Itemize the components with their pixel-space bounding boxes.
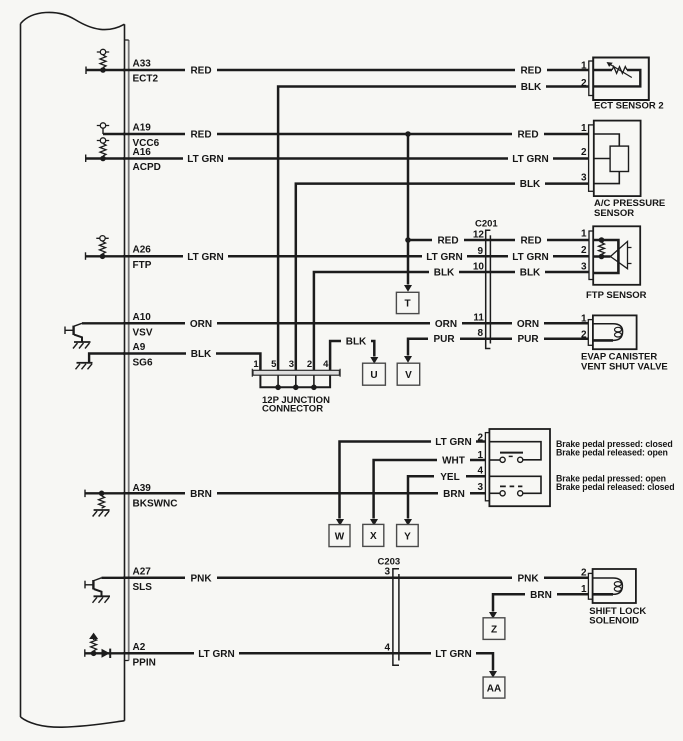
connector C203	[393, 569, 399, 666]
svg-text:4: 4	[384, 643, 390, 654]
label WHT (brake pin 1)	[437, 454, 470, 467]
12P junction connector	[252, 369, 340, 390]
svg-text:A16: A16	[133, 147, 152, 158]
svg-text:ACPD: ACPD	[133, 162, 161, 173]
FTP sensor box	[593, 226, 640, 284]
diode (A2 PPIN)	[102, 649, 111, 658]
label BLK (C201 pin 10)	[429, 266, 459, 279]
wire A19 RED to A/C pressure sensor pin 1	[123, 133, 589, 136]
A/C pressure sensor connector tab	[589, 125, 594, 191]
node T box	[396, 292, 419, 313]
label LT GRN (C203 pin 4)	[431, 647, 476, 660]
pin A10 internal driver transistor Q	[65, 323, 125, 341]
svg-text:BLK: BLK	[191, 349, 212, 360]
svg-text:AA: AA	[487, 683, 501, 694]
svg-text:LT GRN: LT GRN	[187, 252, 223, 263]
svg-text:RED: RED	[520, 236, 541, 247]
pin A2 internal resistor to B+ and diode	[85, 633, 125, 657]
svg-text:V: V	[405, 370, 412, 381]
ground (A9 SG6)	[76, 363, 93, 370]
svg-text:RED: RED	[437, 236, 458, 247]
svg-text:BRN: BRN	[443, 489, 465, 500]
label LT GRN (A16, left)	[183, 152, 228, 165]
label PUR (EVAP pin 2)	[512, 332, 544, 345]
A/C pressure sensor element	[610, 146, 628, 171]
wire BLK ECT sensor 2 pin 2 to junction pin 5	[278, 87, 589, 371]
svg-text:SLS: SLS	[133, 582, 153, 593]
svg-text:3: 3	[289, 359, 294, 370]
svg-text:8: 8	[477, 328, 483, 339]
pin A19 internal terminal	[97, 123, 125, 134]
label LT GRN (brake pin 2)	[431, 435, 476, 448]
wire A9 BLK to junction pin 1	[123, 354, 260, 371]
svg-text:PUR: PUR	[433, 334, 455, 345]
shift lock solenoid pin numbers	[581, 568, 587, 596]
svg-text:10: 10	[473, 262, 485, 273]
label BLK (ECT pin 2)	[516, 80, 546, 93]
svg-text:1: 1	[581, 123, 587, 134]
wire PUR C201 pin 8 to EVAP valve pin 2 and node V	[404, 339, 589, 363]
wire YEL brake switch pin 4 to node Y	[408, 476, 485, 518]
label ORN (C201 pin 11)	[430, 317, 462, 330]
label BRN (shift lock pin 1)	[525, 588, 557, 601]
svg-text:VENT SHUT VALVE: VENT SHUT VALVE	[581, 361, 668, 372]
ECT sensor 2 box	[593, 58, 649, 101]
svg-text:PUR: PUR	[517, 334, 539, 345]
svg-text:A26: A26	[133, 245, 152, 256]
label BRN (brake pin 3)	[438, 487, 470, 500]
svg-text:1: 1	[581, 61, 587, 72]
C201 pin numbers	[473, 230, 485, 340]
pin A26 internal pull-up resistor	[86, 236, 125, 260]
svg-text:2: 2	[307, 359, 312, 370]
ground (A10 driver)	[73, 342, 91, 349]
brake switch state notes	[556, 439, 674, 492]
junction pin numbers 1 5 3 2 4	[253, 359, 329, 370]
svg-text:Z: Z	[491, 624, 497, 635]
svg-text:WHT: WHT	[442, 456, 465, 467]
label LT GRN (C201 pin 9)	[422, 250, 467, 263]
wire A16 LT GRN to A/C pressure sensor pin 2	[123, 157, 589, 160]
svg-text:2: 2	[581, 568, 587, 579]
ECT sensor 2 connector tab	[589, 61, 593, 96]
svg-text:W: W	[335, 531, 345, 542]
svg-text:2: 2	[581, 147, 587, 158]
svg-text:1: 1	[477, 450, 483, 461]
node W box	[329, 525, 350, 547]
A/C pressure sensor box	[594, 121, 641, 197]
wire BLK A/C pressure sensor pin 3 to junction pin 3	[296, 184, 589, 371]
label YEL (brake pin 4)	[434, 470, 466, 483]
svg-text:Brake pedal released: open: Brake pedal released: open	[556, 448, 668, 458]
brake switch pin numbers	[477, 433, 483, 493]
svg-text:BRN: BRN	[190, 489, 212, 500]
ground (A39)	[93, 510, 110, 517]
node X box	[363, 524, 384, 546]
label RED (ECT pin 1)	[515, 64, 547, 77]
svg-text:YEL: YEL	[440, 472, 459, 483]
svg-text:SG6: SG6	[133, 358, 153, 369]
label LT GRN (A2, left)	[194, 647, 239, 660]
svg-text:BLK: BLK	[521, 82, 542, 93]
wire BLK FTP sensor pin 3 through C201 pin 10 to junction pin 2	[314, 272, 589, 370]
node Z box	[483, 618, 505, 640]
svg-text:LT GRN: LT GRN	[198, 649, 234, 660]
ECM pin header rail	[125, 40, 129, 661]
pin A27 internal driver transistor Q	[85, 578, 125, 596]
node Y box	[397, 525, 419, 547]
connector C201	[486, 230, 491, 348]
svg-text:2: 2	[581, 330, 587, 341]
svg-text:Y: Y	[404, 531, 411, 542]
svg-text:3: 3	[581, 262, 587, 273]
svg-text:ORN: ORN	[190, 319, 212, 330]
svg-text:ORN: ORN	[517, 319, 539, 330]
svg-text:BLK: BLK	[520, 179, 541, 190]
pin A33 internal pull-up resistor	[86, 49, 125, 74]
svg-text:BKSWNC: BKSWNC	[133, 499, 178, 510]
solenoid coil inside EVAP valve	[593, 324, 623, 341]
svg-text:PPIN: PPIN	[133, 657, 156, 668]
svg-text:PNK: PNK	[517, 573, 539, 584]
ground (A27 driver)	[93, 596, 111, 603]
EVAP valve connector tab	[588, 320, 593, 346]
label LT GRN (A26, left)	[183, 250, 228, 263]
EVAP valve box	[593, 315, 637, 349]
svg-text:A19: A19	[133, 123, 152, 134]
svg-text:A2: A2	[133, 642, 146, 653]
label LT GRN (FTP pin 2)	[508, 250, 553, 263]
label ORN (EVAP pin 1)	[512, 317, 544, 330]
label LT GRN (A/C pin 2)	[508, 152, 553, 165]
label BRN (A39, left)	[185, 487, 217, 500]
FTP sensor pin numbers	[581, 229, 587, 273]
svg-text:4: 4	[477, 466, 483, 477]
svg-text:LT GRN: LT GRN	[435, 437, 471, 448]
label BLK (A9, left)	[186, 347, 216, 360]
svg-text:1: 1	[581, 314, 587, 325]
svg-text:BLK: BLK	[520, 268, 541, 279]
svg-text:3: 3	[477, 482, 483, 493]
svg-text:2: 2	[581, 78, 587, 89]
ECM connector body (torn edge band)	[21, 12, 125, 727]
svg-text:LT GRN: LT GRN	[435, 649, 471, 660]
svg-text:RED: RED	[190, 66, 211, 77]
svg-text:BLK: BLK	[346, 337, 367, 348]
svg-text:VSV: VSV	[133, 327, 153, 338]
label PNK (shift lock pin 2)	[512, 571, 544, 584]
svg-text:9: 9	[477, 246, 483, 257]
label RED (A/C pin 1)	[512, 128, 544, 141]
wire colour labels (with knockout gaps)	[183, 64, 557, 660]
svg-text:FTP: FTP	[133, 260, 152, 271]
svg-text:LT GRN: LT GRN	[512, 154, 548, 165]
svg-text:12: 12	[473, 230, 485, 241]
svg-text:RED: RED	[190, 130, 211, 141]
svg-text:RED: RED	[517, 130, 538, 141]
node V box	[397, 363, 420, 385]
label ORN (A10, left)	[185, 317, 217, 330]
svg-text:BRN: BRN	[530, 590, 552, 601]
svg-text:RED: RED	[520, 66, 541, 77]
label RED (A19, left)	[185, 128, 217, 141]
label BLK (junction pin 4 to U)	[341, 335, 371, 348]
svg-text:A9: A9	[133, 342, 146, 353]
label BLK (FTP pin 3)	[515, 266, 545, 279]
solenoid coil inside shift lock solenoid	[593, 578, 623, 594]
shift lock solenoid connector tab	[588, 573, 592, 599]
brake pedal position switch box	[489, 429, 550, 506]
svg-text:CONNECTOR: CONNECTOR	[262, 404, 323, 415]
wire LT GRN brake switch pin 2 to node W	[340, 442, 486, 519]
label RED (C201 pin 12)	[432, 234, 464, 247]
wire A26 LT GRN through C201 pin 9 to FTP sensor pin 2	[123, 255, 589, 258]
wire RED branch down to C201 pin 12 and node T	[404, 131, 589, 292]
wire BRN shift lock solenoid pin 1 to node Z	[493, 594, 588, 611]
svg-text:A27: A27	[133, 566, 152, 577]
label PNK (A27, left)	[185, 571, 217, 584]
label PUR (C201 pin 8)	[428, 332, 460, 345]
svg-text:LT GRN: LT GRN	[187, 154, 223, 165]
svg-text:A33: A33	[133, 59, 152, 70]
brake switch upper contact (pins 2-1)	[489, 442, 541, 463]
svg-text:U: U	[370, 370, 377, 381]
svg-text:3: 3	[384, 567, 390, 578]
label BLK (A/C pin 3)	[515, 177, 545, 190]
EVAP valve pin numbers	[581, 314, 587, 341]
svg-text:Brake pedal released: closed: Brake pedal released: closed	[556, 482, 674, 492]
svg-text:4: 4	[323, 359, 329, 370]
wire A10 ORN through C201 pin 11 to EVAP valve pin 1	[123, 322, 589, 325]
thermistor inside ECT sensor 2	[593, 62, 640, 86]
svg-text:1: 1	[581, 229, 587, 240]
svg-text:BLK: BLK	[434, 268, 455, 279]
svg-text:X: X	[370, 531, 377, 542]
brake pedal position switch connector tab	[485, 433, 489, 501]
svg-text:FTP SENSOR: FTP SENSOR	[586, 290, 647, 301]
FTP sensor connector tab	[589, 231, 593, 280]
svg-text:SOLENOID: SOLENOID	[589, 616, 639, 627]
svg-text:SENSOR: SENSOR	[594, 208, 634, 219]
wire BLK junction pin 4 to node U	[330, 341, 378, 370]
svg-text:T: T	[405, 299, 411, 310]
svg-text:C201: C201	[475, 219, 498, 230]
wire A39 BRN to brake switch pin 3	[123, 492, 485, 495]
svg-text:ORN: ORN	[435, 319, 457, 330]
ECT sensor 2 pin numbers	[581, 61, 587, 90]
shift lock solenoid box	[593, 569, 636, 603]
svg-text:3: 3	[581, 173, 587, 184]
brake switch lower contact (pins 4-3)	[489, 476, 541, 496]
node U box	[363, 363, 386, 385]
node AA box	[483, 677, 505, 698]
wire A33 RED to ECT sensor 2 pin 1	[123, 69, 589, 72]
svg-text:1: 1	[581, 584, 587, 595]
svg-text:ECT SENSOR 2: ECT SENSOR 2	[594, 101, 664, 112]
svg-text:5: 5	[271, 359, 277, 370]
svg-text:2: 2	[581, 245, 587, 256]
C203 pin numbers	[384, 567, 390, 654]
A/C pressure sensor pin numbers	[581, 123, 587, 184]
svg-text:ECT2: ECT2	[133, 74, 159, 85]
wire WHT brake switch pin 1 to node X	[374, 460, 486, 519]
svg-text:LT GRN: LT GRN	[512, 252, 548, 263]
wire A27 PNK through C203 pin 3 to shift lock solenoid pin 2	[123, 577, 588, 580]
pin A39 internal resistor to ground	[85, 490, 125, 509]
wire A2 LT GRN through C203 pin 4 to node AA	[123, 653, 493, 670]
pin A9 wire to ground	[89, 354, 124, 363]
FTP sensor internal circuit	[593, 237, 631, 273]
svg-text:1: 1	[253, 359, 259, 370]
svg-text:2: 2	[477, 433, 483, 444]
svg-text:11: 11	[473, 313, 484, 324]
svg-text:A10: A10	[133, 312, 152, 323]
label RED (A33, left)	[185, 64, 217, 77]
pin A16 internal pull-up resistor	[86, 138, 125, 162]
A/C pressure sensor internal wiring	[594, 134, 620, 184]
label RED (FTP pin 1)	[515, 234, 547, 247]
svg-text:LT GRN: LT GRN	[426, 252, 462, 263]
svg-text:PNK: PNK	[190, 573, 212, 584]
